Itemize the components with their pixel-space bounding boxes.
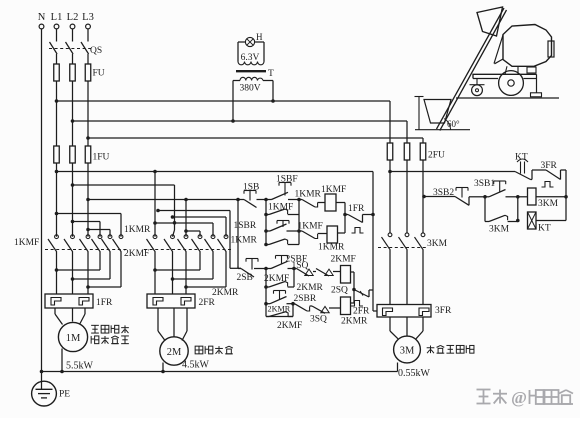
- svg-text:2KMF: 2KMF: [124, 249, 149, 259]
- svg-text:2FU: 2FU: [428, 151, 445, 161]
- svg-text:T: T: [268, 69, 274, 79]
- svg-text:1FR: 1FR: [348, 204, 365, 214]
- svg-text:60°: 60°: [447, 119, 460, 129]
- svg-text:1FU: 1FU: [93, 153, 110, 163]
- svg-text:QS: QS: [90, 46, 102, 56]
- svg-text:2KMF: 2KMF: [264, 274, 289, 284]
- svg-text:2KMR: 2KMR: [268, 304, 291, 313]
- svg-text:1KMF: 1KMF: [268, 203, 293, 213]
- svg-text:1FR: 1FR: [96, 298, 113, 308]
- svg-text:1KMR: 1KMR: [318, 243, 345, 253]
- svg-text:@: @: [511, 388, 527, 407]
- svg-text:3FR: 3FR: [435, 306, 452, 316]
- svg-text:2KMF: 2KMF: [277, 321, 302, 331]
- svg-text:2KMF: 2KMF: [331, 255, 356, 265]
- svg-text:H: H: [256, 32, 263, 42]
- svg-text:3KM: 3KM: [489, 225, 510, 235]
- svg-text:6.3V: 6.3V: [241, 53, 260, 63]
- svg-text:3SB2: 3SB2: [433, 188, 454, 198]
- svg-text:1SBF: 1SBF: [276, 175, 298, 185]
- svg-text:1KMF: 1KMF: [321, 185, 346, 195]
- svg-text:4.5kW: 4.5kW: [182, 360, 210, 371]
- svg-text:1KMR: 1KMR: [124, 225, 151, 235]
- svg-text:1KMR: 1KMR: [231, 236, 258, 246]
- svg-text:KT: KT: [538, 224, 551, 234]
- svg-text:KT: KT: [515, 153, 528, 163]
- svg-text:2SBR: 2SBR: [294, 294, 317, 304]
- svg-text:2SB: 2SB: [237, 273, 253, 283]
- svg-text:FU: FU: [93, 69, 105, 79]
- svg-text:2KMR: 2KMR: [341, 317, 368, 327]
- svg-text:0.55kW: 0.55kW: [398, 368, 431, 379]
- svg-text:3FR: 3FR: [541, 161, 558, 171]
- svg-text:1M: 1M: [66, 333, 81, 344]
- svg-text:L1: L1: [51, 12, 63, 23]
- svg-text:5.5kW: 5.5kW: [66, 361, 94, 372]
- svg-text:1SBR: 1SBR: [234, 221, 257, 231]
- svg-text:2KMR: 2KMR: [212, 288, 239, 298]
- svg-text:L3: L3: [82, 12, 94, 23]
- svg-text:3SQ: 3SQ: [310, 315, 327, 325]
- svg-text:1KMF: 1KMF: [14, 238, 39, 248]
- svg-text:2KMR: 2KMR: [297, 283, 324, 293]
- svg-text:2FR: 2FR: [199, 298, 216, 308]
- svg-text:3KM: 3KM: [538, 199, 559, 209]
- svg-text:1SB: 1SB: [243, 183, 259, 193]
- svg-text:3SB1: 3SB1: [474, 179, 495, 189]
- svg-text:1KMF: 1KMF: [298, 222, 323, 232]
- svg-text:N: N: [38, 12, 46, 23]
- svg-text:2SQ: 2SQ: [331, 286, 348, 296]
- svg-text:1KMR: 1KMR: [295, 190, 322, 200]
- svg-text:PE: PE: [59, 390, 70, 400]
- svg-text:380V: 380V: [239, 84, 260, 94]
- svg-text:2FR: 2FR: [353, 307, 370, 317]
- svg-text:3KM: 3KM: [427, 239, 448, 249]
- svg-text:3M: 3M: [400, 346, 415, 357]
- svg-text:L2: L2: [67, 12, 79, 23]
- svg-text:2M: 2M: [167, 347, 182, 358]
